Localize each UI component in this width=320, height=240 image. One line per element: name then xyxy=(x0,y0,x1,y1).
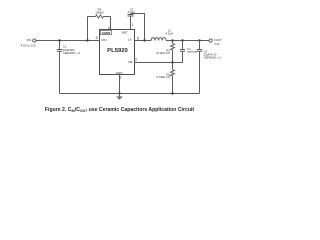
svg-text:4.7µH: 4.7µH xyxy=(166,31,174,35)
inductor L1 labels xyxy=(166,29,174,36)
svg-text:FB: FB xyxy=(128,60,132,64)
svg-text:3: 3 xyxy=(135,57,137,61)
svg-text:4.5V to 21V: 4.5V to 21V xyxy=(21,44,36,48)
terminal VIN xyxy=(33,39,36,42)
resistor R1 xyxy=(171,41,175,63)
wire VIN rail xyxy=(36,40,100,42)
junction C1 tap xyxy=(58,39,60,41)
svg-text:31.6kΩ 1%: 31.6kΩ 1% xyxy=(156,51,170,55)
junction feedback divider tap xyxy=(171,39,173,41)
svg-text:BST: BST xyxy=(122,30,128,34)
wire IC GND pin to rail xyxy=(119,75,121,94)
svg-text:3.3V: 3.3V xyxy=(214,42,220,46)
capacitor C4 xyxy=(180,41,185,63)
svg-text:100kΩ: 100kΩ xyxy=(95,11,104,15)
ground symbol xyxy=(116,94,123,100)
svg-text:SHDN: SHDN xyxy=(102,31,110,35)
svg-text:LX: LX xyxy=(128,38,132,42)
svg-text:VIN: VIN xyxy=(26,38,31,42)
terminal VOUT xyxy=(209,39,212,42)
svg-text:VIN: VIN xyxy=(101,38,106,42)
wire C3 to LX node xyxy=(131,14,145,41)
svg-text:(optional): (optional) xyxy=(187,51,197,54)
capacitor C1 xyxy=(57,41,63,94)
resistor R1 labels xyxy=(156,48,170,55)
capacitor C3 xyxy=(128,14,134,30)
svg-text:Figure 2. CIN/COUT use Ceramic: Figure 2. CIN/COUT use Ceramic Capacitor… xyxy=(45,107,195,113)
junction FB node xyxy=(171,61,173,63)
capacitor C1 value labels xyxy=(63,45,81,55)
junction LX/C3 xyxy=(143,39,145,41)
wire ground rail xyxy=(60,93,200,95)
svg-text:5: 5 xyxy=(96,36,98,40)
junction C4 tap xyxy=(181,39,183,41)
resistor R3 xyxy=(88,15,111,41)
svg-text:0.1µF: 0.1µF xyxy=(128,10,135,14)
capacitor C3 labels xyxy=(128,7,135,14)
IC pin label SHDN (boxed) xyxy=(101,30,112,35)
capacitor C4 labels xyxy=(187,48,197,53)
resistor R3 labels xyxy=(95,8,104,15)
svg-text:2: 2 xyxy=(120,76,122,80)
svg-text:VOUT: VOUT xyxy=(214,38,222,42)
svg-text:PL5920: PL5920 xyxy=(107,48,128,54)
wire LX xyxy=(135,40,152,42)
junction R2 at rail xyxy=(171,92,173,94)
junction IC GND at rail xyxy=(118,92,120,94)
svg-text:1: 1 xyxy=(132,23,134,27)
capacitor C2 xyxy=(197,41,202,94)
wire VOUT rail xyxy=(166,40,209,42)
svg-text:8: 8 xyxy=(137,36,139,40)
svg-text:4: 4 xyxy=(108,26,110,30)
svg-text:CERAMIC x 2: CERAMIC x 2 xyxy=(204,55,222,59)
inductor L1 xyxy=(151,38,166,41)
resistor R2 xyxy=(171,63,175,94)
junction C2 tap xyxy=(198,39,200,41)
capacitor C2 value labels xyxy=(204,50,222,60)
wire FB xyxy=(135,62,183,64)
junction R3 tap xyxy=(86,39,88,41)
IC U1 PL5920 xyxy=(100,30,135,75)
svg-text:9.76kΩ 1%: 9.76kΩ 1% xyxy=(156,75,170,79)
svg-text:CERAMIC x 2: CERAMIC x 2 xyxy=(63,51,81,55)
svg-text:GND: GND xyxy=(116,71,124,75)
resistor R2 labels xyxy=(156,72,170,79)
